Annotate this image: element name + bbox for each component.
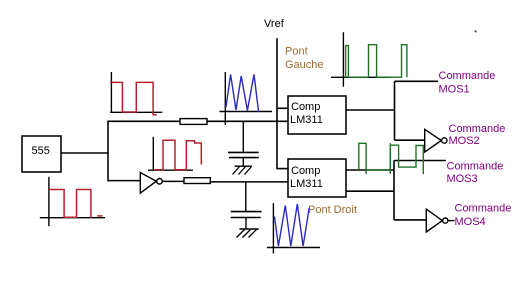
svg-text:Comp: Comp <box>291 165 320 177</box>
wire top branch right <box>207 120 288 122</box>
wire capacitor C1 tap <box>242 121 244 152</box>
svg-text:Pont Droit: Pont Droit <box>308 204 357 216</box>
wire Vref to U3 <box>277 107 288 109</box>
svg-text:Commande: Commande <box>447 160 504 172</box>
svg-text:Gauche: Gauche <box>285 59 324 71</box>
svg-text:LM311: LM311 <box>290 178 323 190</box>
svg-text:555: 555 <box>32 145 50 157</box>
waveform trace 555 output red <box>49 190 103 218</box>
wire Vref vertical <box>276 38 278 169</box>
wire MOS3 MOS4 bus <box>393 161 395 220</box>
waveform trace top green <box>345 45 407 77</box>
comparator U4 LM311 <box>288 159 346 197</box>
wire top branch <box>108 120 181 122</box>
waveform axes top middle red <box>110 72 162 113</box>
wire inverter input <box>108 180 141 182</box>
stray mark <box>475 30 477 32</box>
wire MOS4 inverter input <box>394 219 427 221</box>
svg-text:MOS4: MOS4 <box>455 216 486 228</box>
svg-text:Comp: Comp <box>291 101 320 113</box>
wire capacitor C2 tap <box>245 182 247 212</box>
wire inverter output <box>162 180 185 182</box>
ground C1 <box>233 166 253 174</box>
svg-text:MOS3: MOS3 <box>447 173 478 185</box>
comparator U3 LM311 <box>288 96 346 134</box>
IC U1 555 timer <box>22 136 61 172</box>
wire U3 output <box>346 109 395 111</box>
ground C2 <box>237 229 259 238</box>
waveform trace top middle red <box>110 82 157 114</box>
waveform axes top green <box>331 32 391 86</box>
inverter U6 <box>426 209 454 232</box>
svg-text:Commande: Commande <box>455 203 512 215</box>
waveform axes top blue triangle <box>220 72 273 125</box>
wire U4 output <box>346 169 394 171</box>
wire bottom branch right <box>210 181 288 183</box>
wire U4 output lower <box>346 190 394 192</box>
label Commande MOS2 <box>449 123 506 147</box>
svg-text:Pont: Pont <box>285 46 308 58</box>
resistor R2 <box>184 178 210 184</box>
svg-text:LM311: LM311 <box>290 114 323 126</box>
waveform axis middle green <box>389 143 391 174</box>
capacitor C1 <box>228 152 259 166</box>
label Commande MOS4 <box>455 203 512 229</box>
resistor R1 <box>180 119 207 125</box>
svg-text:Commande: Commande <box>449 123 506 135</box>
waveform axes above inverter red <box>148 137 193 171</box>
waveform trace top blue triangle <box>226 75 259 113</box>
wire junction vertical <box>107 121 109 182</box>
waveform trace bottom blue triangle <box>275 204 310 246</box>
wire Commande MOS3 <box>394 160 446 162</box>
label Pont Gauche <box>285 46 324 71</box>
svg-text:Commande: Commande <box>439 70 496 82</box>
wire Vref to U4 <box>277 168 288 170</box>
waveform axes bottom blue triangle <box>267 203 320 253</box>
label Commande MOS1 <box>439 70 496 96</box>
inverter U2 <box>140 173 162 194</box>
wire MOS1 MOS2 bus <box>394 81 396 140</box>
waveform axes 555 output red <box>40 177 105 226</box>
svg-text:MOS1: MOS1 <box>439 83 470 95</box>
wire MOS2 inverter input <box>395 139 426 141</box>
svg-text:MOS2: MOS2 <box>449 135 480 147</box>
inverter U5 <box>425 129 447 152</box>
waveform trace above inverter red <box>154 140 201 170</box>
wire Commande MOS1 <box>395 80 439 82</box>
svg-text:Vref: Vref <box>264 18 285 30</box>
label Commande MOS3 <box>447 160 504 185</box>
waveform trace middle green <box>359 143 424 174</box>
wire 555 output <box>61 152 109 154</box>
capacitor C2 <box>231 212 262 229</box>
